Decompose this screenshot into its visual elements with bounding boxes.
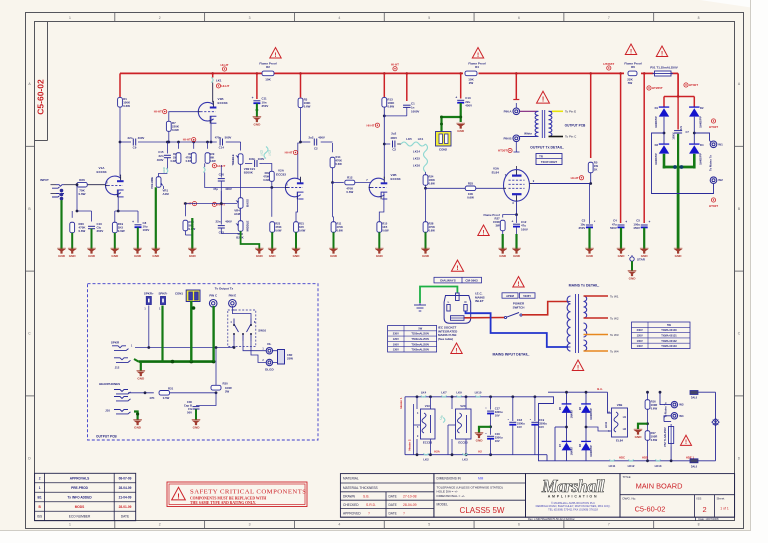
ground under C11 [253, 118, 262, 123]
HI-HT marker near screen [579, 176, 583, 180]
green gnd below bus [140, 362, 142, 371]
svg-text:HI-HT: HI-HT [154, 110, 162, 114]
links LK11 LK12 LK13 [609, 459, 614, 461]
green mains earth wire [420, 287, 457, 304]
svg-text:ISS: ISS [697, 497, 702, 501]
svg-text:HT30T: HT30T [709, 204, 718, 208]
switch contacts [504, 316, 506, 318]
resistor R7 [166, 121, 171, 131]
svg-text:MIDDLE: MIDDLE [245, 221, 249, 232]
svg-text:LK34: LK34 [605, 421, 608, 428]
resistor R29 [207, 142, 209, 149]
svg-text:ECO NUMBER: ECO NUMBER [69, 515, 91, 519]
svg-text:100V: 100V [393, 342, 399, 346]
svg-text:LK14: LK14 [413, 150, 420, 154]
svg-text:LK12: LK12 [628, 464, 635, 468]
resistor R27 flame proof [500, 220, 505, 231]
Marshall logo block [526, 474, 621, 518]
heater V2C wires [451, 397, 453, 409]
svg-text:LK5: LK5 [406, 137, 412, 141]
svg-text:A1M: A1M [234, 212, 241, 216]
links LK22 LK23 treble [264, 147, 268, 159]
wire VR4 to VR3 [240, 208, 242, 220]
HI-HT marker at V2A anode [293, 150, 297, 154]
svg-text:!: ! [482, 229, 484, 236]
svg-text:TR: TR [539, 155, 543, 159]
ground main [674, 249, 683, 254]
svg-text:4: 4 [338, 523, 340, 527]
svg-text:400V: 400V [138, 136, 145, 140]
svg-text:10V: 10V [495, 439, 500, 443]
svg-text:28-01-09: 28-01-09 [119, 505, 132, 509]
green R23 gnd [271, 232, 273, 249]
svg-text:450V: 450V [465, 104, 472, 108]
svg-text:PIN B: PIN B [503, 136, 512, 140]
power switch APEM [502, 293, 518, 298]
revision table [35, 473, 136, 520]
ground under C12 [512, 249, 521, 254]
svg-text:5W: 5W [418, 326, 422, 330]
svg-text:100V: 100V [143, 228, 150, 232]
heater bridge wiring [566, 392, 568, 405]
svg-text:SPKR+: SPKR+ [144, 291, 154, 295]
capacitor C21 [245, 163, 252, 165]
wire R8/R29 to LK31 and V2A grid [204, 163, 206, 167]
ground under R28 [421, 249, 430, 254]
resistor R16 [647, 392, 649, 399]
wire bridge right to W1 [694, 133, 709, 141]
wire V1B grid to R7 [169, 112, 199, 122]
svg-text:DIALWAYS: DIALWAYS [440, 279, 455, 283]
svg-text:MATERIAL: MATERIAL [343, 477, 359, 481]
box TR TXOP-00027 [536, 154, 562, 165]
svg-text:400V: 400V [318, 136, 325, 140]
capacitor C19 [534, 397, 536, 421]
wire SPKR+ down [148, 306, 150, 348]
svg-text:0.6W: 0.6W [382, 229, 389, 233]
wire C21 to R22 [262, 164, 272, 167]
svg-text:C14: C14 [219, 146, 225, 150]
resistor R31 [159, 391, 170, 396]
svg-text:400V: 400V [157, 158, 164, 162]
wire rail to C11 [256, 73, 258, 99]
resistor R24 [425, 172, 427, 175]
svg-text:PIN C: PIN C [209, 293, 218, 297]
svg-text:THE SAME TYPE AND RATING ONLY.: THE SAME TYPE AND RATING ONLY. [190, 501, 256, 505]
svg-text:To W3: To W3 [610, 333, 619, 337]
green input ground wire [60, 199, 62, 249]
svg-text:470K: 470K [337, 225, 343, 229]
svg-text:LK23: LK23 [268, 149, 271, 155]
ground under C30 [192, 421, 201, 426]
svg-text:DRAWN: DRAWN [343, 495, 356, 499]
svg-text:LK10: LK10 [475, 390, 482, 394]
svg-text:10K: 10K [265, 78, 271, 82]
connector W1 [710, 141, 717, 148]
heater V1C wires [416, 397, 418, 409]
svg-text:PIN A: PIN A [504, 109, 513, 113]
wire R12 to V2B grid [355, 182, 371, 184]
links LK2 LK3 on bottom bus [423, 453, 428, 455]
svg-text:50V: 50V [187, 411, 192, 415]
svg-text:0.6W: 0.6W [263, 178, 270, 182]
svg-text:08-07-09: 08-07-09 [119, 477, 132, 481]
svg-text:MAINS Tx DETAIL.: MAINS Tx DETAIL. [569, 284, 600, 288]
svg-text:!: ! [577, 364, 579, 371]
svg-text:CHECKED: CHECKED [343, 503, 359, 507]
wire rail to PIN A [515, 73, 517, 99]
valve V1A ECC83 [105, 176, 120, 195]
svg-text:LK9: LK9 [456, 390, 462, 394]
green bridge bottom [663, 154, 666, 169]
svg-text:SPKR-: SPKR- [159, 291, 168, 295]
wire rail to C1 [406, 73, 408, 101]
svg-text:3W: 3W [495, 224, 500, 228]
ground under C13 [456, 124, 465, 129]
svg-text:0.6W: 0.6W [299, 229, 306, 233]
svg-text:+: + [625, 220, 627, 224]
ground under C4 [617, 249, 626, 254]
resistor R6 flame proof [628, 71, 637, 76]
capacitor C17 [490, 397, 492, 410]
svg-text:W4: W4 [679, 414, 684, 418]
HI-HT pair above R10 [192, 202, 196, 206]
rev strip [340, 516, 734, 518]
warning triangle near R27 [478, 225, 489, 236]
capacitor C10 [88, 225, 95, 227]
svg-text:COMPONENTS MUST BE REPLACED WI: COMPONENTS MUST BE REPLACED WITH [190, 496, 266, 500]
mains transformer TXMA [567, 296, 570, 351]
svg-text:0.6W: 0.6W [387, 105, 394, 109]
svg-text:ECC83: ECC83 [391, 177, 401, 181]
ground under R11 [329, 249, 338, 254]
svg-text:22n: 22n [216, 220, 221, 224]
svg-text:TXOP-00027: TXOP-00027 [541, 160, 558, 164]
wire R20 to gnd [71, 233, 73, 249]
svg-text:470p: 470p [215, 136, 222, 140]
svg-text:1N4007FP: 1N4007FP [590, 445, 593, 457]
headphone jacks [114, 390, 128, 392]
svg-text:1N4007FP: 1N4007FP [700, 153, 703, 165]
svg-text:T500mAL250V: T500mAL250V [411, 337, 429, 341]
safety critical components box [167, 482, 307, 507]
green C4 gnd [620, 228, 622, 249]
svg-text:P51 T1.25mAL250V: P51 T1.25mAL250V [650, 66, 678, 70]
svg-text:GND: GND [111, 254, 119, 258]
svg-text:0.6W: 0.6W [336, 162, 343, 166]
svg-text:To Output Tx: To Output Tx [215, 286, 234, 290]
wire rail to C5 [643, 73, 645, 223]
svg-text:56K: 56K [210, 156, 215, 160]
svg-text:DENBIGH ROAD, BLETCHLEY, MILTO: DENBIGH ROAD, BLETCHLEY, MILTON KEYNES, … [536, 504, 611, 508]
wires W3 W4 [660, 392, 671, 404]
wire V2A anode to coupling [301, 141, 311, 143]
svg-text:PIN E: PIN E [229, 293, 237, 297]
svg-text:470K: 470K [263, 175, 269, 179]
svg-text:47n: 47n [680, 125, 683, 130]
svg-text:?: ? [403, 511, 405, 515]
wire R30 to C30 [196, 393, 216, 406]
HI-HT marker at rail x224 [222, 67, 226, 71]
svg-text:To Pin C: To Pin C [565, 135, 577, 139]
links on top bus [421, 395, 426, 397]
valve V1B ECC83 [198, 102, 213, 121]
capacitor C30 [193, 406, 200, 408]
svg-text:W1: W1 [718, 142, 723, 146]
svg-text:Date: 10/07/2008: Date: 10/07/2008 [699, 517, 719, 521]
svg-text:0.6W: 0.6W [79, 229, 86, 233]
svg-text:GND: GND [193, 426, 201, 430]
svg-text:0.6W: 0.6W [78, 192, 85, 196]
svg-text:5036Y: 5036Y [523, 294, 531, 298]
svg-text:DAL0: DAL0 [691, 466, 698, 469]
svg-text:STAR: STAR [637, 258, 646, 262]
svg-text:0.6W: 0.6W [170, 159, 177, 163]
orange secondary lead W4 [584, 350, 609, 352]
svg-text:ISS: ISS [37, 515, 42, 519]
HI-HT marker near R13 [375, 123, 379, 127]
diode D4 [689, 145, 699, 153]
svg-text:DATE: DATE [389, 511, 397, 515]
HI-HT marker at rail x395 [393, 67, 397, 71]
svg-text:GND: GND [152, 254, 160, 258]
svg-text:R9: R9 [173, 152, 177, 156]
svg-text:7: 7 [608, 16, 610, 20]
svg-text:2: 2 [702, 505, 706, 514]
green R27 gnd [502, 231, 504, 234]
ground under bus [137, 372, 146, 377]
svg-text:HI-HT: HI-HT [571, 176, 579, 180]
svg-text:2W: 2W [469, 81, 474, 85]
svg-text:GND: GND [376, 254, 384, 258]
heater bottom bus [405, 454, 547, 456]
resistor R15 [377, 222, 382, 233]
svg-text:GND: GND [422, 254, 430, 258]
svg-text:GND: GND [88, 254, 96, 258]
svg-text:GND: GND [586, 254, 594, 258]
svg-text:ECC83: ECC83 [458, 441, 468, 445]
svg-text:5: 5 [428, 523, 430, 527]
svg-text:R2: R2 [266, 65, 270, 69]
ground under C5 [640, 249, 649, 254]
connector W4 [671, 413, 677, 419]
green main gnd drop [677, 134, 679, 167]
svg-text:10V: 10V [495, 414, 500, 418]
wire grid divider [77, 185, 92, 211]
svg-text:A1M: A1M [163, 192, 170, 196]
svg-text:C2: C2 [392, 148, 396, 152]
svg-text:HT30T: HT30T [709, 125, 718, 129]
svg-text:(See table): (See table) [438, 337, 453, 341]
svg-text:GND: GND [58, 254, 66, 258]
resistor R13 [382, 98, 387, 108]
svg-text:!: ! [542, 96, 544, 104]
svg-text:47p: 47p [213, 187, 218, 191]
svg-text:100n: 100n [249, 157, 256, 161]
green R28 gnd [425, 232, 427, 249]
svg-text:C2: C2 [314, 147, 318, 151]
svg-text:© MARSHALL AMPLIFICATION PL: © MARSHALL AMPLIFICATION PLC [551, 501, 595, 505]
wire PIN A to output transformer (purple) [520, 110, 538, 112]
heater top bus [405, 396, 538, 398]
capacitor C2 coupling [384, 143, 390, 145]
red secondary lead W1 [584, 295, 609, 297]
svg-text:S.R.D.: S.R.D. [366, 503, 376, 507]
svg-text:5: 5 [428, 16, 430, 20]
capacitor C4 electrolytic [618, 224, 625, 226]
svg-text:T500mAL250V: T500mAL250V [411, 342, 429, 346]
svg-text:SPKR: SPKR [111, 341, 120, 345]
svg-text:C5-60-02: C5-60-02 [36, 79, 46, 115]
svg-text:H2A: H2A [434, 450, 440, 454]
svg-text:To W2: To W2 [610, 316, 619, 320]
svg-text:1: 1 [39, 486, 41, 490]
warning triangle above P51 [656, 46, 667, 57]
svg-text:1: 1 [69, 16, 71, 20]
svg-text:2: 2 [159, 16, 161, 20]
green verticals from terminals [161, 306, 163, 362]
red secondary lead W2 [584, 317, 609, 319]
svg-text:S.B.: S.B. [363, 495, 369, 499]
drawing number strip C5-60-02 [47, 22, 49, 141]
wire rail to bridge [677, 73, 679, 96]
svg-text:GND: GND [134, 254, 142, 258]
svg-text:120V: 120V [393, 337, 399, 341]
svg-text:28-04-09: 28-04-09 [119, 486, 132, 490]
svg-text:0.6W: 0.6W [172, 128, 179, 132]
ground under VR3 [255, 249, 264, 254]
warning triangle above transformer [537, 91, 550, 103]
ground under R23 [268, 249, 277, 254]
svg-text:CON1: CON1 [175, 292, 183, 296]
ground under R20 [68, 249, 77, 254]
svg-text:0.6W: 0.6W [651, 438, 658, 442]
svg-text:MAINS INPUT DETAIL.: MAINS INPUT DETAIL. [492, 353, 529, 357]
svg-text:2: 2 [39, 477, 41, 481]
ground heater mid [475, 434, 484, 439]
svg-text:!: ! [177, 491, 180, 500]
page edge shadow [750, 0, 752, 531]
svg-text:HT30T: HT30T [498, 149, 507, 153]
wire V2B cathode to R15 [379, 192, 384, 222]
links LK5 LK6 squiggle [401, 142, 426, 146]
svg-text:T250mAL250V: T250mAL250V [411, 332, 429, 336]
svg-text:W3: W3 [679, 403, 684, 407]
svg-text:EL84: EL84 [616, 439, 623, 443]
svg-text:OUTPUT PCB: OUTPUT PCB [565, 123, 586, 127]
svg-text:100K: 100K [429, 178, 435, 182]
svg-text:GND: GND [618, 254, 626, 258]
svg-text:1N4007: 1N4007 [571, 446, 574, 455]
capacitor C5 electrolytic [641, 224, 648, 226]
svg-text:GND: GND [189, 254, 197, 258]
green J10 gnd [134, 412, 138, 421]
heater loop wiring [538, 397, 555, 461]
capacitor C13 electrolytic [457, 99, 464, 101]
svg-text:R25: R25 [468, 182, 474, 186]
resistor R17 [645, 431, 650, 441]
resistor R30 [215, 348, 217, 386]
jack PIN B [513, 135, 520, 142]
svg-text:GND: GND [269, 254, 277, 258]
wire C17 to C16 junction [490, 414, 492, 435]
svg-text:8: 8 [698, 523, 700, 527]
link LK6 diag [443, 417, 445, 422]
resistor R19 [112, 222, 117, 233]
resistor R25 [465, 186, 476, 191]
svg-text:4: 4 [338, 16, 340, 20]
green speaker bus [139, 360, 214, 363]
svg-text:10V: 10V [539, 425, 544, 429]
resistor R10 [184, 204, 186, 217]
svg-text:130V: 130V [637, 344, 643, 348]
capacitor C11 electrolytic [253, 100, 260, 102]
wire bass mid bus [185, 203, 237, 205]
svg-text:LK11: LK11 [609, 464, 616, 468]
svg-text:To Pin E: To Pin E [565, 110, 576, 114]
svg-text:VOLUME: VOLUME [150, 177, 154, 189]
svg-text:B200K: B200K [244, 171, 254, 175]
warning triangle above DIALWAYS [451, 260, 463, 271]
heater DC to V3B [608, 392, 612, 413]
wire V2A cathode to R21 [296, 192, 298, 222]
wire C8 to gnd [137, 228, 139, 250]
svg-text:LK4: LK4 [421, 390, 427, 394]
svg-text:0.6W: 0.6W [429, 182, 436, 186]
HT265T marker below fuse left [647, 86, 651, 90]
wire rail to R5 [590, 73, 592, 158]
tag bottom [690, 459, 698, 463]
wire rail to R3 [300, 73, 302, 97]
svg-text:LK2: LK2 [423, 458, 429, 462]
svg-text:450V: 450V [633, 226, 640, 230]
heater bridge diodes D5 D6 [562, 405, 572, 413]
svg-text:C21: C21 [250, 167, 256, 171]
svg-text:130V: 130V [393, 348, 399, 352]
svg-text:350V: 350V [262, 104, 269, 108]
svg-text:TXMA-00131: TXMA-00131 [661, 334, 677, 338]
diamond node [712, 419, 719, 426]
svg-text:HI-HT: HI-HT [183, 138, 191, 142]
diode D1 [659, 108, 669, 116]
wire PIN E to SW10 [232, 306, 251, 319]
svg-text:1N4007FP: 1N4007FP [655, 116, 658, 128]
ruler ticks [114, 13, 116, 22]
valve V3B heater box [612, 408, 628, 437]
green C5 gnd [643, 228, 645, 249]
svg-text:D3: D3 [655, 143, 659, 147]
potentiometer VR3 MIDDLE [238, 221, 243, 232]
capacitor C1 [403, 104, 411, 106]
svg-text:21-04-09: 21-04-09 [119, 496, 132, 500]
wire EL84 cathode to R27/C12 [516, 201, 518, 214]
svg-text:230V: 230V [393, 332, 399, 336]
resistor R4 flame proof [465, 71, 477, 76]
svg-text:LK3: LK3 [462, 458, 468, 462]
svg-text:D4: D4 [700, 143, 704, 147]
svg-text:R29: R29 [210, 152, 215, 156]
svg-text:470K: 470K [336, 159, 342, 163]
svg-text:B.A.: B.A. [597, 387, 603, 391]
svg-text:D2: D2 [700, 106, 704, 110]
resistor R9 [178, 142, 180, 149]
svg-text:25W: 25W [287, 357, 293, 361]
svg-text:LK1: LK1 [418, 137, 424, 141]
svg-text:1 of 1: 1 of 1 [720, 507, 729, 511]
svg-text:LK13: LK13 [655, 464, 662, 468]
output transformer TR windings [535, 111, 538, 136]
svg-text:!: ! [477, 52, 479, 59]
